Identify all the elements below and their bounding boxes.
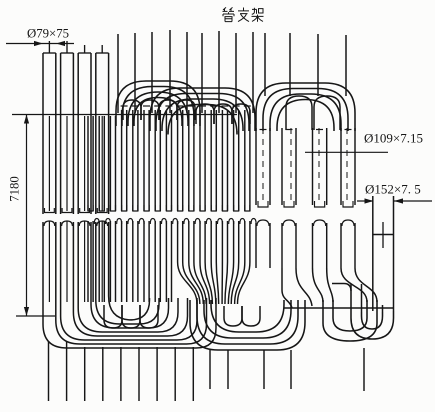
tube L1 wall outer lower U-bend [43, 222, 216, 348]
bottom downcomer A7 [156, 347, 158, 401]
bottom downcomer A8 [174, 347, 176, 401]
tube L2 wall outer lower U-bend [61, 222, 197, 340]
datum tick (lower level) [16, 315, 55, 317]
hanger rod 8 [235, 33, 237, 113]
hanger rod 2 [134, 33, 136, 113]
hanger rod 13 [345, 35, 347, 96]
hanger rod 4 [169, 30, 171, 113]
tube L3 wall outer lower U-bend [78, 222, 178, 332]
hanger rod dashed (hidden in tube) 1 [262, 128, 264, 203]
right panel joint row [257, 201, 354, 226]
bottom downcomer A9 [192, 347, 194, 401]
tube L4 upper section [96, 45, 109, 226]
middle panel tube walls lower run (with funnel convergence) [88, 221, 250, 304]
far-right tall U tube (Ø152) [351, 196, 394, 339]
middle panel bottom bend cluster [190, 300, 305, 350]
hanger rod 6 [201, 33, 203, 113]
bottom downcomer A1 [48, 341, 50, 401]
hanger rod dashed (hidden in tube) 2 [290, 128, 292, 203]
hanger rod 3 [151, 32, 153, 113]
middle panel bottom small cups [104, 305, 260, 328]
svg-text:Ø79×75: Ø79×75 [27, 27, 69, 41]
weld tick marks below top bends [121, 105, 251, 107]
right panel bottom U-bend [323, 300, 377, 341]
svg-text:7180: 7180 [8, 176, 22, 202]
middle panel top bend cluster B [150, 88, 255, 135]
bottom downcomer B4 [290, 350, 292, 389]
right panel converging wye bends [282, 268, 377, 308]
connector into far-right U left leg [332, 284, 351, 292]
dimension line 7180 with arrows [24, 115, 29, 317]
hanger rod dashed (hidden in tube) 4 [346, 128, 348, 203]
middle panel top bend cluster A [116, 81, 200, 126]
hanger rod dashed (hidden in tube) 3 [318, 128, 320, 203]
title label 管支架 (tube support) [223, 7, 264, 21]
tube L2 upper section [61, 41, 74, 226]
support rods between left tubes [49, 116, 102, 302]
hanger rod 7 [218, 31, 220, 113]
tube L4 wall outer lower U-bend [96, 222, 159, 324]
tube L4 wall inner lower U-bend [109, 222, 150, 320]
bottom downcomer A6 [138, 347, 140, 401]
bottom downcomer B1 [209, 350, 211, 389]
hanger rod 5 [186, 32, 188, 113]
middle panel small arches B [196, 104, 250, 124]
bottom downcomer A5 [120, 347, 122, 401]
bottom downcomer B2 [227, 350, 229, 389]
middle panel small arches A [123, 100, 195, 120]
weld tick marks below right panel bends [260, 129, 352, 131]
svg-text:Ø152×7. 5: Ø152×7. 5 [365, 182, 421, 197]
horizontal connecting tube to far-right U [284, 307, 393, 309]
tube L3 upper section [78, 45, 91, 226]
svg-text:Ø109×7.15: Ø109×7.15 [364, 131, 423, 146]
middle panel tube walls upper run [88, 110, 250, 211]
bottom downcomer A3 [84, 347, 86, 401]
bottom downcomer B3 [263, 350, 265, 389]
leader line for Ø109 [305, 151, 388, 153]
dimension line Ø79x75 with arrows [6, 41, 74, 46]
hanger rod 11 [289, 33, 291, 96]
right panel tube walls lower run [256, 223, 355, 268]
tube L1 upper section [43, 41, 56, 226]
bottom downcomer A2 [66, 341, 68, 401]
hanger rod 1 [117, 34, 119, 113]
hanger rod 9 [252, 32, 254, 113]
right panel small arches [286, 96, 340, 130]
hanger rod 10 [264, 33, 266, 96]
bottom downcomer far right [363, 348, 365, 391]
right panel tube walls upper run [256, 128, 355, 205]
tube L3 wall inner lower U-bend [91, 222, 169, 328]
tube L1 wall inner lower U-bend [56, 222, 207, 344]
right panel top bend cluster [256, 83, 355, 131]
middle panel joint row (weld couplings) [88, 205, 256, 224]
bottom downcomer A4 [102, 347, 104, 401]
dimension line Ø152 with arrows [357, 198, 432, 203]
tube L2 wall inner lower U-bend [73, 222, 187, 336]
hanger rod 12 [317, 34, 319, 96]
datum line (upper header level) [12, 114, 237, 116]
